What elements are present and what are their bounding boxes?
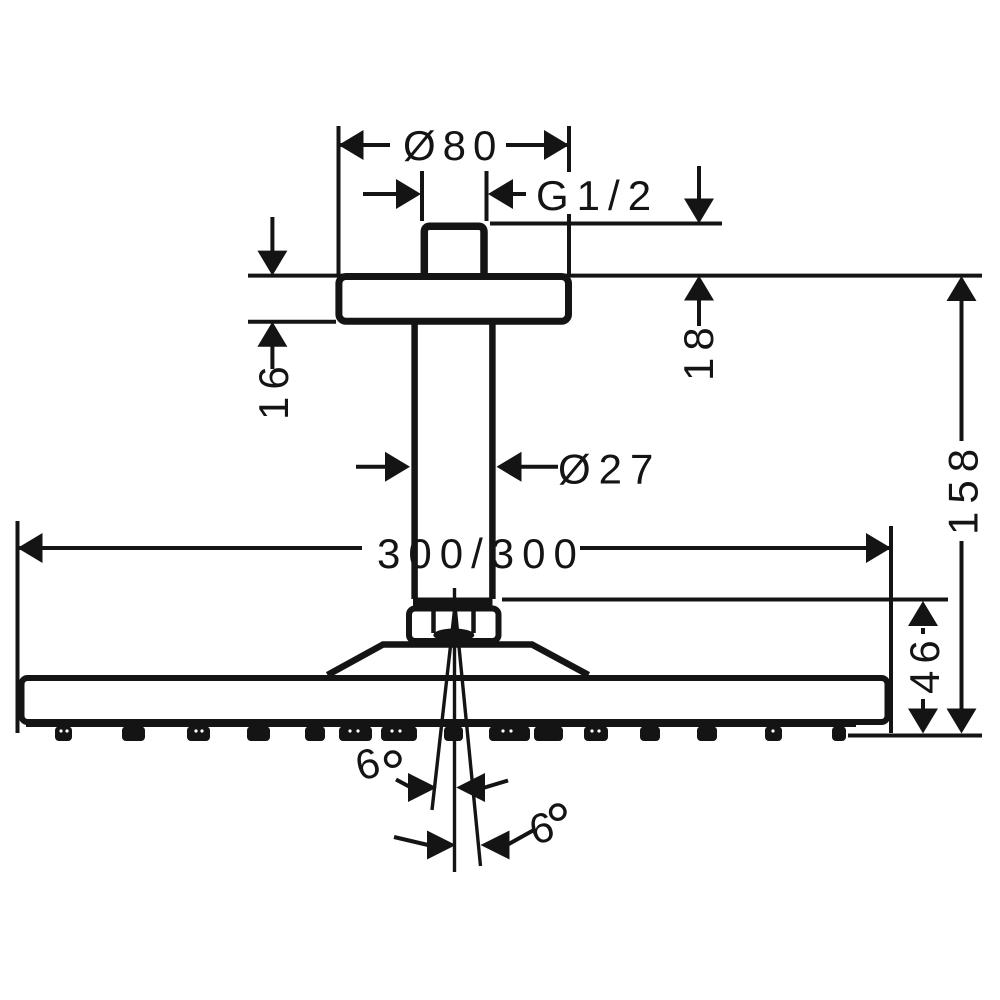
- svg-text:°: °: [380, 737, 406, 809]
- svg-text:°: °: [545, 790, 571, 862]
- svg-text:46: 46: [901, 633, 948, 694]
- svg-text:16: 16: [250, 359, 297, 420]
- svg-text:Ø27: Ø27: [558, 446, 661, 493]
- svg-text:18: 18: [675, 320, 722, 381]
- svg-text:G1/2: G1/2: [536, 172, 659, 219]
- svg-text:Ø80: Ø80: [403, 122, 503, 169]
- svg-text:158: 158: [940, 441, 987, 535]
- svg-text:300/300: 300/300: [377, 530, 585, 577]
